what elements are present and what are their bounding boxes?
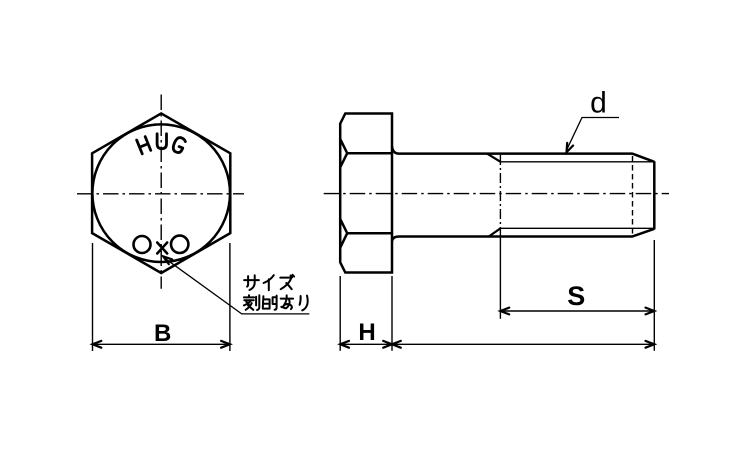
leader arrowhead at hex bottom [163,256,172,264]
glyph サ [244,275,259,290]
glyph り [300,296,308,311]
H left extension line [339,276,341,351]
glyph 印 [263,296,277,310]
d leader line [567,118,620,151]
horizontal centerline of hex head [77,193,244,195]
head side outline [340,114,392,273]
svg-text:H: H [358,319,375,346]
head lower facet chamfer triangle [340,219,347,248]
shank bottom outline with under-head fillet [392,229,654,241]
B dimension line [93,343,230,345]
shank dim left arrowhead [392,341,401,348]
B left extension line [92,243,94,351]
hex head outline (across corners) [92,113,230,273]
size mark x between circles [157,243,167,254]
S dimension line [500,310,654,312]
side view centerline [324,193,669,195]
head marking letter H (curved brand mark HUG) [137,134,186,154]
thread start chain line [499,155,501,237]
leader line diagonal [164,257,310,314]
d leader arrowhead [567,143,574,153]
H left arrowhead [340,341,349,348]
head upper facet line [347,152,392,155]
right extension line [653,240,655,351]
H right extension line [391,276,393,351]
glyph あ [281,295,293,309]
S right arrowhead [646,308,655,315]
thread runout diagonal top [487,154,501,162]
H dimension line [340,343,392,345]
svg-text:B: B [154,320,171,347]
size mark right circle O [171,236,188,253]
shank top outline with under-head fillet [392,146,654,162]
B right arrowhead [221,341,230,348]
svg-text:d: d [590,87,607,120]
thread start extension line to S dim [499,237,501,319]
B right extension line [229,243,231,351]
thread minor diameter line top [501,161,655,163]
head marking letter U [157,134,166,149]
chamfer circle of hex head [92,124,230,262]
H right arrowhead [383,341,392,348]
S left arrowhead [500,308,509,315]
vertical centerline of hex head [160,95,162,289]
thread runout diagonal bottom [489,228,501,236]
head lower facet line [347,232,392,235]
thread end face [653,161,656,229]
note text line2 刻印あり (drawn as paths) [244,295,308,310]
thread minor diameter line bottom [501,227,655,229]
glyph 刻 [244,295,259,310]
glyph ズ [280,275,294,289]
shank dimension line [392,343,654,345]
head marking letter G [172,136,187,154]
shank dim right arrowhead [646,341,655,348]
size mark left circle O [134,236,151,253]
head upper facet chamfer triangle [340,139,347,167]
svg-text:S: S [567,281,585,311]
chamfer boundary dashed line [632,156,634,234]
B left arrowhead [93,341,102,348]
note text line1 サイズ (drawn as paths) [244,275,294,290]
glyph イ [264,275,274,290]
